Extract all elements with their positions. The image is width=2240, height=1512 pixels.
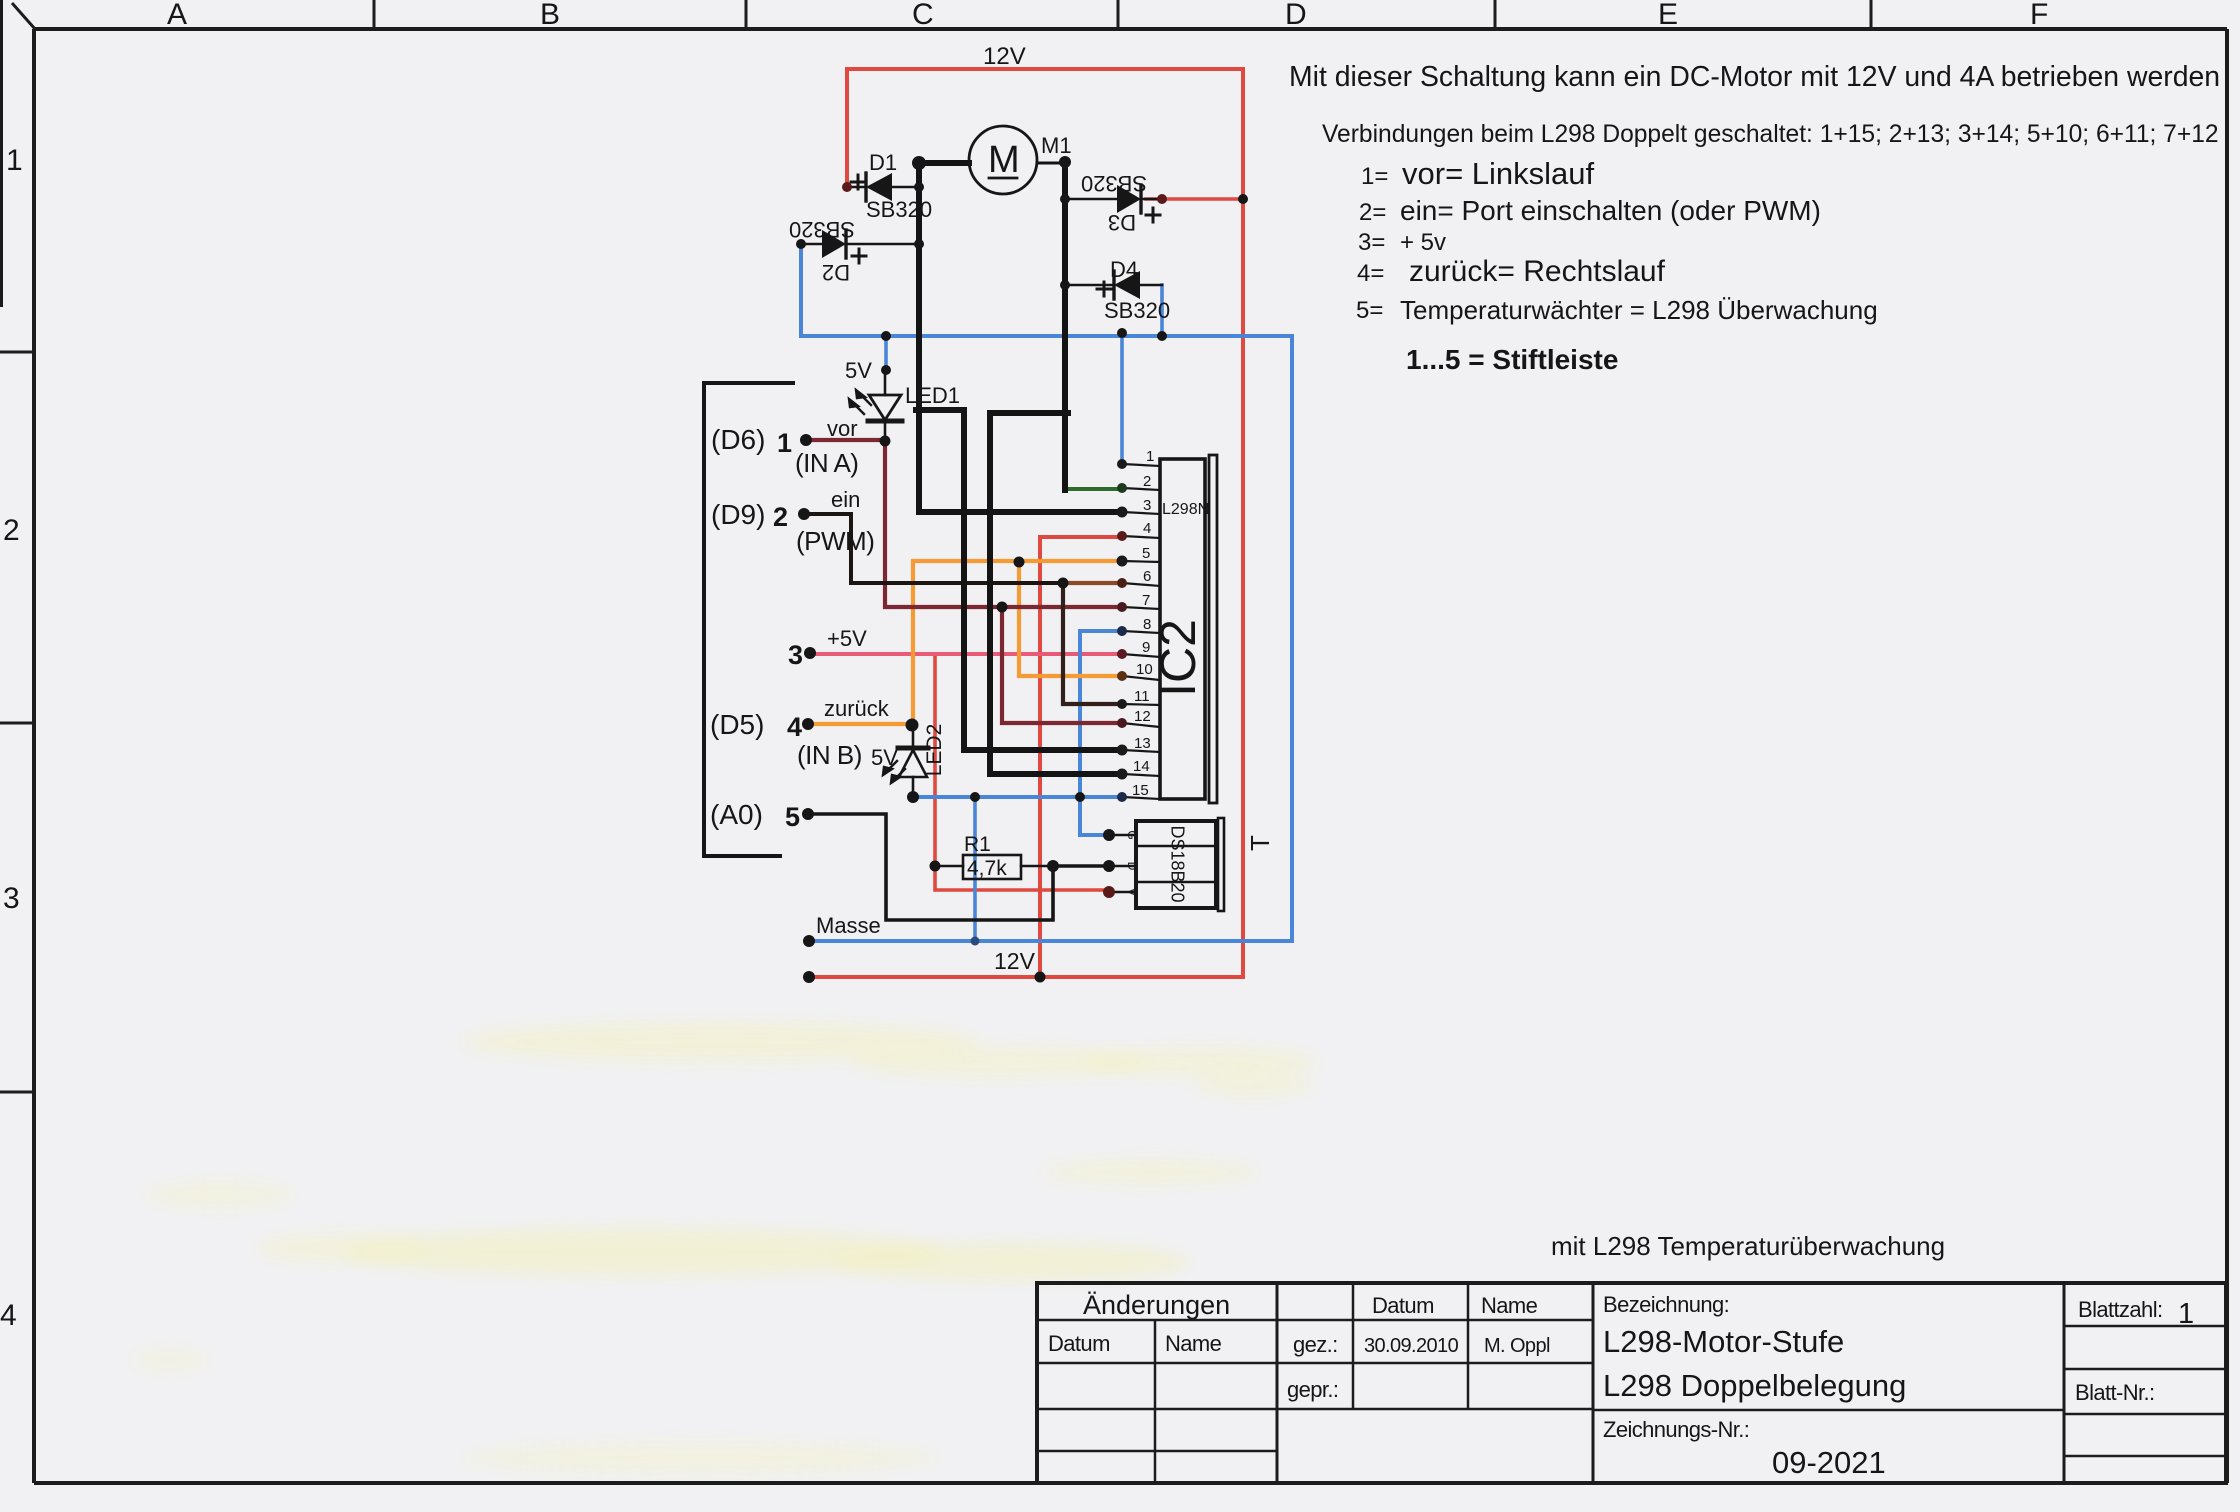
wire zurück connector4 to LED2 (orange) bbox=[808, 722, 912, 726]
svg-text:5: 5 bbox=[785, 802, 800, 832]
left margin ticks bbox=[0, 351, 34, 354]
svg-text:Verbindungen beim L298 Doppelt: Verbindungen beim L298 Doppelt geschalte… bbox=[1322, 121, 2219, 148]
svg-text:6: 6 bbox=[1143, 568, 1151, 585]
wire IC2 pin 13 stub bbox=[1122, 750, 1160, 752]
wire IC2 pin 10 stub bbox=[1122, 676, 1160, 680]
svg-text:D: D bbox=[1285, 0, 1307, 31]
svg-text:M: M bbox=[988, 139, 1020, 181]
svg-text:Änderungen: Änderungen bbox=[1083, 1290, 1230, 1320]
svg-text:ein= Port einschalten (oder PW: ein= Port einschalten (oder PWM) bbox=[1400, 195, 1821, 226]
svg-text:4: 4 bbox=[787, 712, 802, 742]
node LED1 cathode / vor bbox=[880, 436, 891, 447]
svg-text:Name: Name bbox=[1481, 1293, 1538, 1318]
node IC2 pin 8 terminal bbox=[1117, 626, 1127, 636]
wire motor-left thick vertical to pin3 bbox=[919, 161, 1122, 512]
svg-text:E: E bbox=[1658, 0, 1678, 31]
node IC2 pin 3 terminal bbox=[1117, 507, 1128, 518]
svg-text:L298-Motor-Stufe: L298-Motor-Stufe bbox=[1603, 1324, 1844, 1359]
node Masse line junction bbox=[971, 937, 980, 946]
wire D4 drop (blue) bbox=[1160, 285, 1164, 336]
node motor-right junction bbox=[1059, 156, 1071, 168]
node IC2 pin 11 terminal bbox=[1117, 699, 1127, 709]
wire vor connector1 to LED1 (maroon) bbox=[806, 438, 885, 442]
wire orange riser to pin5 bbox=[913, 561, 1122, 724]
svg-text:V: V bbox=[1125, 888, 1139, 896]
node LED2 cathode / zurueck bbox=[906, 719, 919, 732]
wire pin1 drop (blue) bbox=[1120, 333, 1124, 464]
svg-text:B: B bbox=[540, 0, 560, 31]
diode D3 SB320 bbox=[1065, 171, 1162, 235]
svg-text:Masse: Masse bbox=[816, 913, 881, 938]
node IC2 pin 5 terminal bbox=[1117, 556, 1128, 567]
svg-text:12: 12 bbox=[1134, 708, 1151, 725]
node connector pin5 terminal bbox=[802, 808, 814, 820]
node pin8/pin15 junction bbox=[1075, 792, 1085, 802]
node IC2 pin 15 terminal bbox=[1117, 792, 1127, 802]
node connector pin1 terminal bbox=[800, 434, 812, 446]
svg-text:Name: Name bbox=[1165, 1331, 1222, 1356]
svg-text:Blattzahl:: Blattzahl: bbox=[2078, 1297, 2163, 1322]
wire IC2 pin 4 stub bbox=[1122, 536, 1160, 538]
temperature sensor DS18B20 bbox=[1109, 818, 1224, 911]
diode D4 SB320 bbox=[1065, 257, 1170, 323]
wire IC2 pin 14 stub bbox=[1122, 774, 1160, 776]
wire IC2 pin 7 stub bbox=[1122, 607, 1160, 609]
wire blue ground bus D2-D4 top horizontal bbox=[801, 244, 1292, 941]
node 5V LED1 anode bbox=[881, 365, 891, 375]
svg-text:DS18B20: DS18B20 bbox=[1167, 825, 1187, 902]
svg-text:12V: 12V bbox=[994, 948, 1036, 974]
node DS18B20 DQ pin bbox=[1103, 860, 1115, 872]
svg-text:5=: 5= bbox=[1356, 297, 1383, 324]
node 12V rail / pin4 junction bbox=[1035, 972, 1046, 983]
svg-text:1...5 = Stiftleiste: 1...5 = Stiftleiste bbox=[1406, 344, 1618, 375]
svg-text:gepr.:: gepr.: bbox=[1287, 1377, 1338, 1402]
wire +5V connector3 to pin9 (pink) bbox=[810, 652, 1122, 656]
svg-text:3: 3 bbox=[3, 882, 20, 915]
svg-text:vor= Linkslauf: vor= Linkslauf bbox=[1402, 156, 1595, 191]
svg-text:vor: vor bbox=[827, 416, 858, 441]
node D3 anode junction bbox=[1060, 194, 1070, 204]
node IC2 pin 14 terminal bbox=[1117, 769, 1128, 780]
node connector pin4 terminal bbox=[802, 718, 814, 730]
IC2 pin terminal dots bbox=[1117, 459, 1128, 802]
svg-text:D3: D3 bbox=[1108, 210, 1136, 235]
wire ein connector2 to pin6 (black) bbox=[804, 514, 1063, 583]
wire pin4 Vs to 12V rail (red) bbox=[1040, 537, 1122, 977]
svg-text:R1: R1 bbox=[964, 833, 991, 856]
svg-text:G: G bbox=[1125, 830, 1139, 839]
svg-text:3=: 3= bbox=[1358, 229, 1385, 256]
svg-text:13: 13 bbox=[1134, 735, 1151, 752]
svg-text:11: 11 bbox=[1134, 688, 1150, 705]
node GND bus / LED1 tap bbox=[881, 331, 891, 341]
wire maroon riser to pin7 bbox=[885, 440, 1122, 607]
node 12V bottom terminal bbox=[803, 971, 815, 983]
node IC2 pin 7 terminal bbox=[1117, 602, 1127, 612]
svg-text:30.09.2010: 30.09.2010 bbox=[1364, 1335, 1459, 1357]
svg-text:D2: D2 bbox=[822, 260, 850, 285]
svg-text:Temperaturwächter = L298 Überw: Temperaturwächter = L298 Überwachung bbox=[1400, 295, 1878, 325]
wire IC2 pin 3 stub bbox=[1122, 512, 1160, 514]
wire motor right lead bbox=[1037, 162, 1065, 165]
svg-text:F: F bbox=[2030, 0, 2048, 31]
svg-text:L298 Doppelbelegung: L298 Doppelbelegung bbox=[1603, 1368, 1906, 1403]
wire pin6 stub (brown) bbox=[1063, 581, 1122, 585]
svg-text:(IN B): (IN B) bbox=[797, 740, 862, 770]
wire pin2 stub (green) bbox=[1065, 487, 1122, 491]
svg-text:4: 4 bbox=[0, 1299, 17, 1332]
svg-text:SB320: SB320 bbox=[866, 197, 932, 222]
svg-text:3: 3 bbox=[788, 640, 803, 670]
resistor R1 4,7k bbox=[935, 833, 1053, 880]
svg-text:Blatt-Nr.:: Blatt-Nr.: bbox=[2075, 1380, 2155, 1405]
wire maroon branch to pin12 bbox=[1002, 607, 1122, 723]
node IC2 pin 10 terminal bbox=[1117, 671, 1127, 681]
node motor-left junction bbox=[912, 156, 926, 170]
node pin5/pin10 junction bbox=[1014, 557, 1025, 568]
IC2 pin lines and numbers bbox=[1122, 464, 1160, 799]
svg-text:2: 2 bbox=[773, 502, 788, 532]
svg-text:(D9): (D9) bbox=[711, 499, 765, 530]
node GND bus / pin1 tap bbox=[1117, 328, 1127, 338]
svg-text:mit L298 Temperaturüberwachung: mit L298 Temperaturüberwachung bbox=[1551, 1231, 1945, 1261]
node D4 anode junction bbox=[1060, 280, 1070, 290]
svg-text:IC2: IC2 bbox=[1150, 619, 1206, 697]
svg-text:M. Oppl: M. Oppl bbox=[1484, 1335, 1550, 1357]
svg-text:(IN A): (IN A) bbox=[795, 448, 858, 478]
junction dots bbox=[796, 156, 1248, 983]
wire motor-left branch to pin14 bbox=[916, 410, 1122, 750]
node IC2 pin 12 terminal bbox=[1117, 718, 1127, 728]
LED2 bbox=[871, 724, 946, 797]
svg-text:Mit dieser Schaltung kann ein: Mit dieser Schaltung kann ein DC-Motor m… bbox=[1289, 61, 2220, 93]
svg-text:7: 7 bbox=[1142, 592, 1150, 609]
wire connector5 A0 to DS18B20 DQ (black) bbox=[808, 814, 1109, 920]
wire motor-right branch to pin13 bbox=[990, 413, 1122, 774]
top margin ticks bbox=[373, 0, 376, 29]
wire IC2 pin 12 stub bbox=[1122, 723, 1160, 727]
margin row numbers bbox=[0, 144, 23, 1332]
svg-text:+ 5v: + 5v bbox=[1400, 229, 1446, 256]
svg-text:D1: D1 bbox=[869, 150, 897, 175]
wire pin8 branch + DS18B20 GND (blue) bbox=[1080, 631, 1122, 835]
svg-text:(PWM): (PWM) bbox=[796, 526, 874, 556]
svg-text:(D5): (D5) bbox=[710, 709, 764, 740]
connector bracket Stiftleiste bbox=[704, 383, 793, 856]
svg-text:SB320: SB320 bbox=[1081, 171, 1147, 196]
svg-text:(A0): (A0) bbox=[710, 799, 763, 830]
svg-text:8: 8 bbox=[1143, 616, 1151, 633]
node pin7/pin12 junction bbox=[997, 602, 1008, 613]
svg-text:ein: ein bbox=[831, 487, 860, 512]
svg-text:Datum: Datum bbox=[1048, 1331, 1110, 1356]
svg-text:2: 2 bbox=[1143, 473, 1151, 490]
svg-text:M1: M1 bbox=[1041, 133, 1072, 158]
svg-text:Datum: Datum bbox=[1372, 1293, 1434, 1318]
wire LED2 to pin15 (blue) bbox=[913, 795, 1122, 799]
svg-text:+5V: +5V bbox=[827, 626, 867, 651]
IC2 L298N body bbox=[1150, 455, 1217, 803]
svg-text:SB320: SB320 bbox=[1104, 298, 1170, 323]
wire D3 cathode to 12V rail (red) bbox=[1146, 197, 1243, 201]
motor M1 bbox=[969, 126, 1072, 194]
svg-text:09-2021: 09-2021 bbox=[1772, 1445, 1886, 1480]
svg-text:2: 2 bbox=[3, 514, 20, 547]
margin column letters bbox=[167, 0, 2048, 31]
wire 12V top+right+bottom rail (red) bbox=[809, 69, 1243, 977]
LED1 bbox=[845, 358, 960, 441]
wire IC2 pin 8 stub bbox=[1122, 631, 1160, 633]
svg-text:5: 5 bbox=[1142, 545, 1150, 562]
svg-text:Bezeichnung:: Bezeichnung: bbox=[1603, 1292, 1729, 1317]
node D1 anode / 12V bbox=[842, 182, 852, 192]
svg-text:4=: 4= bbox=[1357, 260, 1384, 287]
wire IC2 pin 11 stub bbox=[1122, 704, 1160, 705]
wire IC2 pin 15 stub bbox=[1122, 797, 1160, 799]
wire motor-right thick vertical bbox=[1062, 160, 1068, 490]
svg-text:10: 10 bbox=[1136, 661, 1153, 678]
svg-text:14: 14 bbox=[1133, 758, 1150, 775]
svg-text:T: T bbox=[1245, 835, 1275, 851]
svg-text:A: A bbox=[167, 0, 187, 31]
diode D2 SB320 bbox=[789, 217, 919, 285]
svg-text:LED2: LED2 bbox=[923, 724, 946, 777]
node connector pin2 terminal bbox=[798, 508, 810, 520]
node pin6/pin11 junction bbox=[1058, 578, 1069, 589]
svg-text:L298N: L298N bbox=[1162, 501, 1209, 518]
svg-text:D: D bbox=[1125, 862, 1139, 871]
svg-text:zurück: zurück bbox=[824, 696, 890, 721]
svg-text:3: 3 bbox=[1143, 497, 1151, 514]
node DS18B20 GND pin bbox=[1103, 829, 1115, 841]
node IC2 pin 9 terminal bbox=[1117, 649, 1127, 659]
node D1 cathode junction bbox=[914, 182, 924, 192]
wire +5V to R1 and DS18B20 VDD (red) bbox=[935, 654, 1109, 890]
yellow highlighter smudges bbox=[130, 1022, 1320, 1474]
svg-text:4,7k: 4,7k bbox=[967, 857, 1007, 880]
svg-text:5V: 5V bbox=[845, 358, 872, 383]
svg-text:LED1: LED1 bbox=[905, 383, 960, 408]
wire LED1 5V stub (blue) bbox=[884, 336, 888, 370]
node D3 cathode bbox=[1157, 194, 1167, 204]
node connector pin3 terminal bbox=[804, 647, 816, 659]
svg-text:1: 1 bbox=[2178, 1298, 2194, 1330]
wire dark branch to pin11 bbox=[1063, 583, 1122, 704]
node DS18B20 VDD pin bbox=[1103, 886, 1115, 898]
wire orange branch to pin10 bbox=[1019, 562, 1122, 676]
svg-text:9: 9 bbox=[1142, 639, 1150, 656]
node R1 left / +5V junction bbox=[930, 861, 941, 872]
svg-text:C: C bbox=[912, 0, 934, 31]
node IC2 pin 1 terminal bbox=[1117, 459, 1127, 469]
scanner edge artifact bbox=[0, 0, 3, 307]
node IC2 pin 6 terminal bbox=[1117, 578, 1127, 588]
wire IC2 pin 5 stub bbox=[1122, 561, 1160, 562]
wire Masse branch vertical (blue) bbox=[973, 797, 977, 941]
node LED2 anode / GND bbox=[907, 791, 919, 803]
svg-text:15: 15 bbox=[1132, 782, 1149, 799]
node IC2 pin 13 terminal bbox=[1117, 745, 1128, 756]
svg-text:2=: 2= bbox=[1359, 199, 1386, 226]
node Masse terminal bbox=[803, 935, 815, 947]
svg-text:1: 1 bbox=[1146, 448, 1154, 465]
diode D1 SB320 bbox=[847, 150, 932, 222]
node R1 right / DQ junction bbox=[1047, 860, 1059, 872]
svg-text:(D6): (D6) bbox=[711, 424, 765, 455]
svg-text:gez.:: gez.: bbox=[1293, 1332, 1338, 1357]
svg-text:D4: D4 bbox=[1110, 257, 1138, 282]
svg-text:12V: 12V bbox=[983, 43, 1026, 70]
node D2 cathode junction bbox=[914, 239, 924, 249]
node D3 to 12V rail bbox=[1238, 194, 1248, 204]
svg-text:1: 1 bbox=[6, 144, 23, 177]
svg-text:SB320: SB320 bbox=[789, 217, 855, 242]
wire motor left lead bbox=[919, 160, 969, 166]
wire IC2 pin 1 stub bbox=[1122, 464, 1160, 466]
svg-text:1=: 1= bbox=[1361, 163, 1388, 190]
svg-text:1: 1 bbox=[777, 428, 792, 458]
node GND branch junction bbox=[970, 792, 980, 802]
title block bbox=[1037, 1283, 2226, 1483]
wire IC2 pin 9 stub bbox=[1122, 654, 1160, 657]
node IC2 pin 4 terminal bbox=[1117, 531, 1127, 541]
svg-text:4: 4 bbox=[1143, 520, 1151, 537]
node IC2 pin 2 terminal bbox=[1117, 483, 1127, 493]
svg-text:Zeichnungs-Nr.:: Zeichnungs-Nr.: bbox=[1603, 1417, 1749, 1442]
node D2 anode / GND bus bbox=[796, 239, 806, 249]
wire IC2 pin 2 stub bbox=[1122, 488, 1160, 490]
svg-text:zurück= Rechtslauf: zurück= Rechtslauf bbox=[1409, 255, 1666, 288]
wire IC2 pin 6 stub bbox=[1122, 583, 1160, 586]
node GND bus / D4 tap bbox=[1157, 331, 1167, 341]
